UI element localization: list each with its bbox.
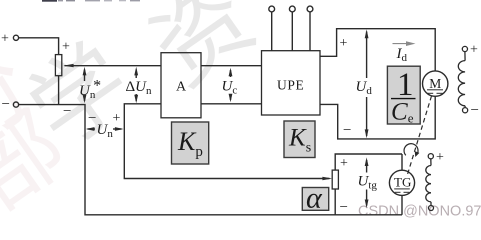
svg-text:资: 资 bbox=[134, 0, 273, 105]
svg-text:−: − bbox=[63, 104, 71, 120]
svg-text:ΔUn: ΔUn bbox=[126, 79, 153, 97]
node delta Un measuring arrow bbox=[134, 67, 138, 104]
rotation arrow on shaft bbox=[404, 144, 419, 157]
svg-text:−: − bbox=[88, 111, 96, 127]
label minus at Ud bbox=[343, 123, 351, 139]
svg-text:+: + bbox=[62, 40, 70, 55]
svg-text:+: + bbox=[436, 150, 444, 165]
gain label Kp bbox=[172, 122, 209, 164]
svg-text:−: − bbox=[2, 97, 10, 113]
node Un feedback measuring arrow bbox=[86, 127, 124, 131]
current Id direction arrow bbox=[393, 41, 416, 46]
three phase terminals bbox=[269, 6, 313, 51]
feedback coefficient label alpha bbox=[302, 188, 328, 211]
wire UPE positive output to motor bbox=[320, 29, 435, 71]
wire lower rail from minus terminal down and along bottom to TG bbox=[19, 105, 402, 215]
svg-text:A: A bbox=[176, 80, 187, 95]
label plus at TG field bbox=[436, 150, 444, 165]
label Utg bbox=[358, 174, 378, 192]
label Un bbox=[97, 122, 114, 140]
wire lower input of A with feedback branch bbox=[124, 104, 332, 180]
label M bbox=[429, 76, 441, 91]
label plus at input terminal bbox=[1, 32, 9, 47]
node Uc measuring arrow bbox=[229, 68, 233, 103]
svg-text:−: − bbox=[471, 103, 479, 119]
potentiometer alpha pot bbox=[332, 170, 338, 215]
svg-text:UPE: UPE bbox=[277, 78, 304, 93]
terminal plus input bbox=[13, 35, 18, 40]
label alpha bbox=[306, 182, 323, 215]
tachogenerator TG bbox=[389, 154, 414, 215]
motor field winding bbox=[458, 46, 467, 112]
label plus at Utg bbox=[340, 156, 348, 171]
label plus at Ud bbox=[340, 36, 348, 51]
svg-text:Ud: Ud bbox=[356, 79, 373, 97]
wire TG top to alpha potentiometer bbox=[335, 154, 402, 170]
watermark background chinese characters (decorative) bbox=[11, 0, 272, 168]
label minus at Un bbox=[88, 111, 96, 127]
label plus at RP1 top bbox=[62, 40, 70, 55]
wire A output bottom to UPE bbox=[201, 103, 262, 105]
label Ud bbox=[356, 79, 373, 97]
shaft dashed coupling M to TG bbox=[407, 96, 432, 176]
terminal minus input bbox=[13, 102, 18, 107]
gain label Ks bbox=[284, 121, 315, 158]
label Id bbox=[396, 46, 408, 64]
label minus at motor field bbox=[471, 103, 479, 119]
svg-text:+: + bbox=[1, 32, 9, 47]
label Kp bbox=[177, 127, 203, 160]
potentiometer RP1 bbox=[55, 55, 61, 76]
label Ks bbox=[288, 125, 311, 156]
label delta Un bbox=[126, 79, 153, 97]
label 1 over Ce bbox=[391, 67, 414, 126]
wire plus terminal to potentiometer top bbox=[19, 38, 59, 55]
TG field winding bbox=[426, 154, 434, 211]
svg-text:Id: Id bbox=[396, 46, 408, 64]
wire RP1 bottom to lower rail bbox=[58, 76, 60, 105]
svg-text:+: + bbox=[340, 156, 348, 171]
svg-text:Uc: Uc bbox=[222, 79, 238, 97]
label TG bbox=[394, 175, 411, 190]
label plus at Un bbox=[113, 111, 121, 126]
power converter UPE bbox=[262, 51, 321, 115]
label Uc bbox=[222, 79, 238, 97]
node Ud measuring arrow bbox=[365, 29, 369, 138]
svg-text:+: + bbox=[470, 43, 478, 58]
amplifier A bbox=[161, 53, 201, 118]
svg-text:α: α bbox=[306, 182, 323, 215]
wire RP1 wiper to amplifier A input bbox=[63, 64, 161, 67]
cropped dark text at top edge (decorative) bbox=[42, 0, 140, 2]
svg-text:CSDN @NONO.97: CSDN @NONO.97 bbox=[358, 204, 481, 220]
motor M bbox=[423, 71, 448, 96]
node Un* measuring arrow bbox=[83, 67, 87, 104]
label minus at Utg bbox=[340, 200, 348, 216]
block 1/Ce bbox=[387, 66, 420, 124]
svg-text:−: − bbox=[343, 123, 351, 139]
node Utg measuring arrow bbox=[365, 157, 369, 208]
wire A output top to UPE bbox=[201, 65, 262, 67]
svg-text:+: + bbox=[113, 111, 121, 126]
svg-text:−: − bbox=[340, 200, 348, 216]
svg-text:M: M bbox=[429, 76, 441, 91]
svg-text:+: + bbox=[340, 36, 348, 51]
label A bbox=[176, 80, 187, 95]
label plus at motor field bbox=[470, 43, 478, 58]
wire UPE negative output rail to motor bottom bbox=[320, 96, 435, 139]
svg-text:TG: TG bbox=[394, 175, 411, 190]
label UPE bbox=[277, 78, 304, 93]
svg-text:Utg: Utg bbox=[358, 174, 378, 192]
label minus at input terminal bbox=[2, 97, 10, 113]
label Un* bbox=[79, 78, 100, 102]
label minus below RP1 bbox=[63, 104, 71, 120]
